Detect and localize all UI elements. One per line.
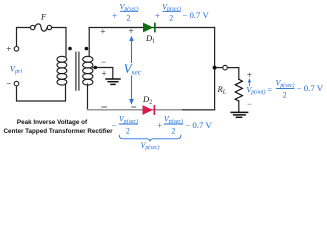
terminal circle (+ input) xyxy=(14,47,19,52)
svg-text:Vp(sec): Vp(sec) xyxy=(275,79,294,89)
Vsec double arrow xyxy=(129,36,134,105)
svg-text:+: + xyxy=(100,26,105,36)
svg-text:2: 2 xyxy=(283,90,287,99)
svg-text:2: 2 xyxy=(126,126,130,135)
svg-text:+: + xyxy=(112,11,117,21)
svg-text:−: − xyxy=(101,57,106,67)
brace (Vp(sec) total) xyxy=(119,135,181,141)
svg-text:− 0.7 V: − 0.7 V xyxy=(185,120,212,130)
caption: Peak Inverse Voltage of / Center Tapped Transformer Rectifier xyxy=(3,119,113,135)
svg-text:2: 2 xyxy=(171,126,175,135)
svg-text:D2: D2 xyxy=(142,94,152,106)
svg-text:−: − xyxy=(247,99,252,109)
wire: primary top lead (terminal + up to fuse) xyxy=(17,28,31,47)
resistor RL xyxy=(235,79,242,101)
wire: right vertical (diode outputs junction) xyxy=(214,28,216,110)
fuse F xyxy=(31,24,52,31)
phase dot (secondary) xyxy=(85,47,89,51)
label − (Vsec bottom) xyxy=(132,106,136,108)
wire: RL to ground xyxy=(238,101,240,112)
svg-text:+: + xyxy=(157,120,162,130)
svg-text:D1: D1 xyxy=(145,33,155,45)
wire: primary bottom return xyxy=(17,84,66,101)
arrow (Vp(out) up arrow) xyxy=(248,78,251,85)
terminal circle (− input) xyxy=(14,81,19,86)
wire: bottom rail (gray, inactive path) xyxy=(88,109,184,111)
wire: fuse to primary winding top xyxy=(52,28,67,57)
wire: secondary top rail xyxy=(89,27,214,29)
wire: secondary bottom lead to bottom rail xyxy=(87,84,89,110)
label − (secondary bottom end) xyxy=(102,106,107,108)
label Vp(out) = Vp(sec)/2 − 0.7 V xyxy=(246,79,323,100)
svg-text:Peak Inverse Voltage of: Peak Inverse Voltage of xyxy=(17,119,88,126)
svg-text:+: + xyxy=(128,26,133,36)
svg-text:− 0.7 V: − 0.7 V xyxy=(297,83,324,93)
junction dot (output node) xyxy=(213,66,217,70)
svg-text:Center Tapped Transformer Rect: Center Tapped Transformer Rectifier xyxy=(3,128,113,135)
diode D1 xyxy=(143,23,156,33)
wire: center tap to ground xyxy=(93,68,113,79)
ground (load) xyxy=(231,112,247,117)
svg-text:Vp(sec): Vp(sec) xyxy=(140,141,159,151)
svg-text:+: + xyxy=(101,68,106,78)
ground (center tap) xyxy=(106,79,120,84)
svg-text:−: − xyxy=(6,78,11,88)
diode D2 xyxy=(143,105,156,115)
transformer core xyxy=(76,52,79,90)
svg-text:Vpri: Vpri xyxy=(10,63,23,75)
transformer secondary winding xyxy=(83,56,93,85)
svg-text:Vp(out) =: Vp(out) = xyxy=(246,85,272,95)
svg-text:Vp(sec): Vp(sec) xyxy=(164,115,183,125)
transformer primary winding xyxy=(57,56,67,85)
label − Vp(sec)/2 (bottom left fraction) xyxy=(111,115,138,136)
output terminal circle xyxy=(223,65,228,70)
svg-text:Vsec: Vsec xyxy=(124,61,142,76)
label + Vp(sec)/2 − 0.7 V (top, right of D1) xyxy=(155,2,209,22)
label + Vp(sec)/2 (top, left of D1) xyxy=(112,2,138,22)
junction dot (center tap) xyxy=(94,66,98,70)
svg-text:2: 2 xyxy=(127,14,131,23)
wire: node to output terminal xyxy=(217,67,223,69)
svg-text:+: + xyxy=(6,44,11,54)
svg-text:2: 2 xyxy=(169,14,173,23)
svg-text:F: F xyxy=(40,11,47,21)
label + Vp(sec)/2 − 0.7 V (bottom right fraction) xyxy=(157,115,212,136)
svg-text:− 0.7 V: − 0.7 V xyxy=(182,10,209,20)
phase dot (primary) xyxy=(68,47,72,51)
wire: output terminal to RL xyxy=(228,68,239,80)
wire: secondary top lead xyxy=(88,28,90,57)
svg-text:Vp(sec): Vp(sec) xyxy=(119,115,138,125)
svg-text:RL: RL xyxy=(217,84,227,96)
svg-text:+: + xyxy=(155,11,160,21)
